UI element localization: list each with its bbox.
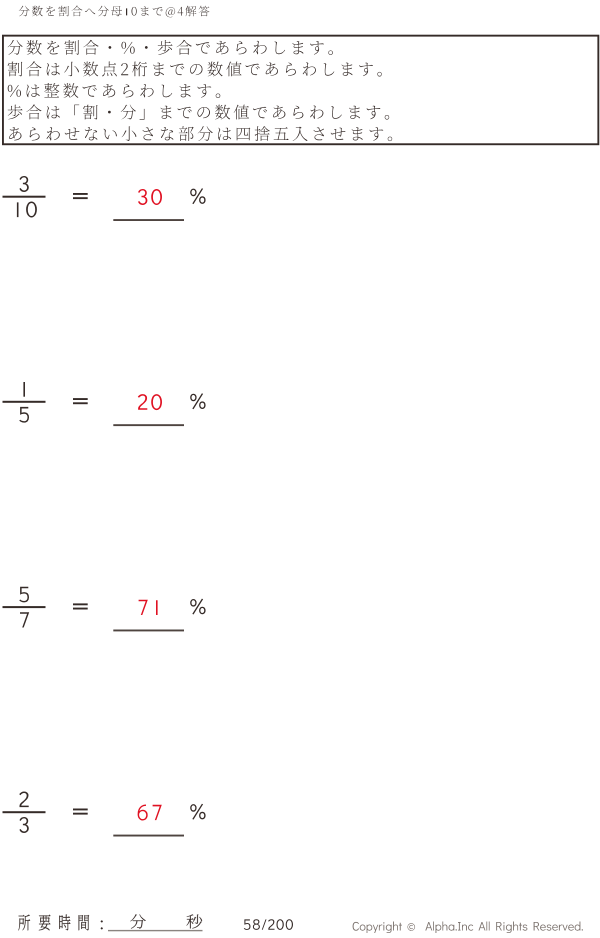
problem 2 percent sign — [190, 393, 205, 409]
problem 1 fraction bar — [3, 196, 46, 198]
problem 3 fraction bar — [3, 606, 46, 608]
footer blank underline — [108, 930, 203, 931]
page title — [19, 6, 210, 18]
problem 4 fraction numerator 2 — [19, 792, 29, 808]
instruction line 2 — [8, 61, 382, 76]
footer page number 58/200 — [244, 919, 293, 930]
footer copyright — [353, 922, 583, 934]
instruction line 3 — [8, 83, 221, 98]
problem 1 percent sign — [190, 188, 205, 204]
problem 2 answer line — [113, 424, 184, 426]
problem 4 percent sign — [190, 804, 205, 820]
problem 3 fraction denominator 7 — [20, 612, 29, 627]
problem 3 answer line — [113, 630, 184, 632]
problem 3 answer 71 (red) — [139, 600, 158, 615]
problem 4 fraction denominator 3 — [19, 817, 28, 833]
problem 4 fraction bar — [3, 811, 46, 813]
problem 1 answer line — [113, 219, 184, 221]
footer time label 所要時間 — [18, 915, 89, 931]
problem 4 answer line — [113, 835, 184, 837]
problem 2 answer 20 (red) — [138, 394, 162, 410]
instruction box border — [3, 36, 598, 145]
footer unit 秒 — [187, 914, 203, 928]
problem 1 fraction numerator 3 — [19, 176, 28, 192]
problem 3 fraction numerator 5 — [19, 587, 29, 603]
problem 2 equals sign — [73, 398, 88, 400]
instruction line 1 — [8, 40, 333, 55]
problem 2 fraction denominator 5 — [19, 407, 29, 423]
problem 2 fraction numerator 1 — [23, 382, 25, 397]
instruction line 4 — [8, 105, 390, 120]
problem 1 fraction denominator 10 — [17, 202, 37, 218]
instruction line 5 — [9, 126, 392, 141]
footer colon — [101, 921, 103, 930]
problem 1 equals sign — [73, 193, 88, 195]
problem 4 answer 67 (red) — [138, 805, 162, 821]
problem 1 answer 30 (red) — [138, 189, 162, 205]
problem 3 percent sign — [190, 599, 205, 615]
footer unit 分 — [130, 914, 145, 928]
problem 3 equals sign — [73, 603, 88, 605]
problem 4 equals sign — [73, 809, 88, 811]
problem 2 fraction bar — [3, 401, 46, 403]
